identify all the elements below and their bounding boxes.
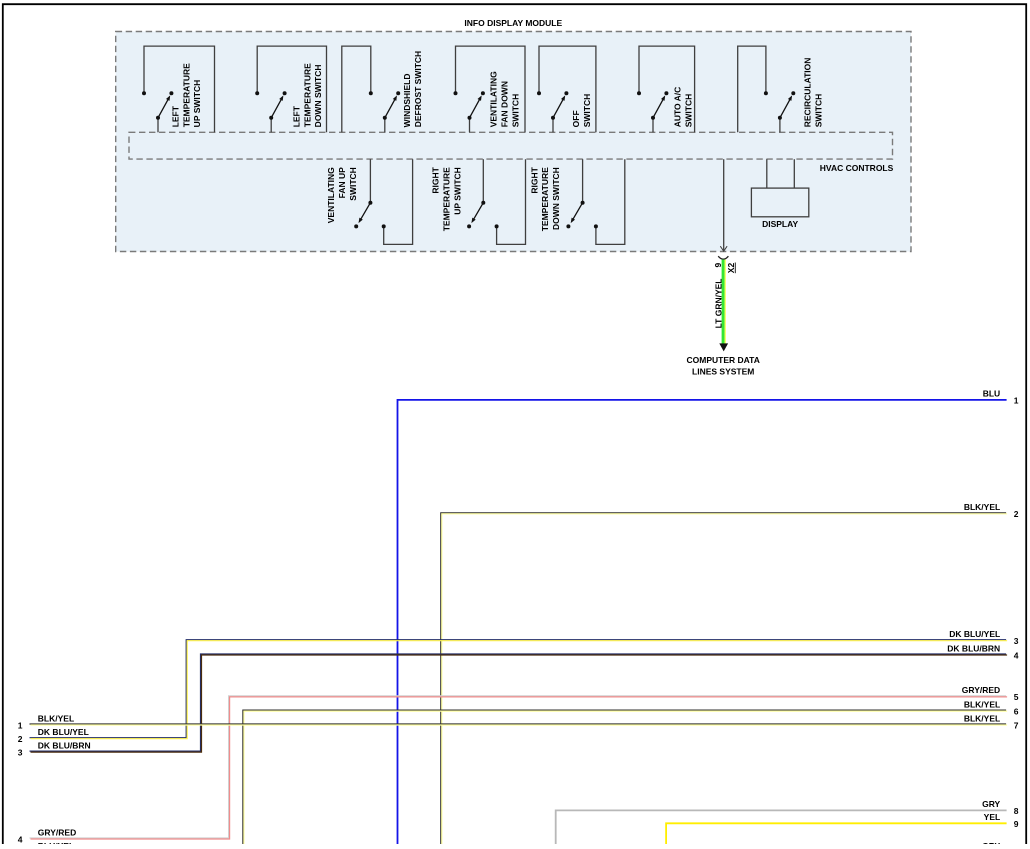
- svg-text:INFO DISPLAY MODULE: INFO DISPLAY MODULE: [464, 18, 562, 28]
- connector designator X2 (underlined): [726, 263, 736, 274]
- svg-text:9: 9: [713, 263, 723, 268]
- wire W1 BLU: [398, 400, 1007, 845]
- svg-text:LT GRN/YEL: LT GRN/YEL: [713, 278, 723, 328]
- svg-text:GRY/RED: GRY/RED: [38, 827, 76, 837]
- display unit wires: [767, 159, 795, 188]
- switch S9 right temperature up switch: [431, 159, 526, 244]
- svg-text:TEMPERATURE: TEMPERATURE: [442, 167, 452, 231]
- svg-text:DK BLU/BRN: DK BLU/BRN: [38, 740, 91, 750]
- svg-text:SWITCH: SWITCH: [348, 167, 358, 201]
- svg-text:VENTILATING: VENTILATING: [326, 167, 336, 223]
- svg-text:9: 9: [1014, 819, 1019, 829]
- svg-text:X2: X2: [726, 263, 736, 274]
- svg-text:8: 8: [1014, 806, 1019, 816]
- arrowhead to computer data lines system: [719, 343, 728, 351]
- wire from HVAC bus down to connector X2: [720, 159, 727, 251]
- svg-text:HVAC CONTROLS: HVAC CONTROLS: [820, 163, 894, 173]
- wire W8 GRY: [556, 810, 1007, 845]
- svg-text:SWITCH: SWITCH: [582, 94, 592, 128]
- wire W6 BLK/YEL: [243, 710, 1007, 845]
- wire W9 YEL: [666, 823, 1007, 845]
- svg-text:FAN UP: FAN UP: [337, 167, 347, 199]
- svg-text:6: 6: [1014, 706, 1019, 716]
- switch S2 left temperature down switch: [255, 46, 326, 132]
- svg-text:4: 4: [1014, 650, 1019, 660]
- svg-text:AUTO A/C: AUTO A/C: [673, 87, 683, 128]
- svg-text:FAN DOWN: FAN DOWN: [500, 81, 510, 127]
- svg-text:YEL: YEL: [984, 812, 1001, 822]
- svg-text:OFF: OFF: [571, 110, 581, 127]
- wire W3 DK BLU/YEL: [30, 640, 1008, 739]
- svg-text:BLK/YEL: BLK/YEL: [964, 699, 1000, 709]
- svg-text:LINES SYSTEM: LINES SYSTEM: [692, 366, 754, 376]
- wire W7 BLK/YEL: [30, 724, 1008, 725]
- svg-text:GRY: GRY: [982, 799, 1000, 809]
- svg-text:TEMPERATURE: TEMPERATURE: [302, 63, 312, 127]
- svg-text:VENTILATING: VENTILATING: [489, 71, 499, 127]
- svg-text:TEMPERATURE: TEMPERATURE: [540, 167, 550, 231]
- svg-text:DOWN SWITCH: DOWN SWITCH: [551, 167, 561, 230]
- svg-text:BLK/YEL: BLK/YEL: [964, 713, 1000, 723]
- svg-text:DEFROST SWITCH: DEFROST SWITCH: [413, 51, 423, 128]
- switch S6 auto a/c switch: [637, 46, 695, 132]
- svg-text:BLK/YEL: BLK/YEL: [964, 502, 1000, 512]
- module INFO DISPLAY MODULE dashed box: [116, 32, 911, 252]
- svg-text:DK BLU/YEL: DK BLU/YEL: [949, 629, 1000, 639]
- svg-text:RIGHT: RIGHT: [529, 166, 539, 193]
- svg-text:WINDSHIELD: WINDSHIELD: [402, 73, 412, 127]
- svg-text:UP SWITCH: UP SWITCH: [192, 80, 202, 128]
- switch S7 recirculation switch: [738, 46, 824, 132]
- svg-text:GRY/RED: GRY/RED: [962, 685, 1000, 695]
- svg-text:TEMPERATURE: TEMPERATURE: [181, 63, 191, 127]
- svg-text:BLU: BLU: [983, 389, 1000, 399]
- svg-text:DK BLU/YEL: DK BLU/YEL: [38, 727, 89, 737]
- svg-text:LEFT: LEFT: [291, 105, 301, 127]
- svg-text:BLK/YEL: BLK/YEL: [38, 713, 74, 723]
- node COMPUTER DATA LINES SYSTEM: [687, 355, 760, 376]
- switch S5 off switch: [537, 46, 596, 132]
- svg-text:SWITCH: SWITCH: [813, 94, 823, 128]
- switch S8 ventilating fan up switch: [326, 159, 412, 244]
- svg-text:UP SWITCH: UP SWITCH: [452, 167, 462, 215]
- svg-text:4: 4: [18, 834, 23, 844]
- svg-text:RIGHT: RIGHT: [431, 166, 441, 193]
- switch S1 left temperature up switch: [142, 46, 215, 132]
- wire W5 GRY/RED: [30, 696, 1008, 839]
- svg-text:SWITCH: SWITCH: [510, 94, 520, 128]
- svg-text:RECIRCULATION: RECIRCULATION: [802, 58, 812, 128]
- svg-text:3: 3: [18, 747, 23, 757]
- svg-text:1: 1: [1014, 396, 1019, 406]
- svg-text:SWITCH: SWITCH: [684, 94, 694, 128]
- svg-text:2: 2: [18, 734, 23, 744]
- display unit box: [751, 188, 808, 217]
- svg-text:LEFT: LEFT: [170, 105, 180, 127]
- svg-text:7: 7: [1014, 720, 1019, 730]
- svg-text:DOWN SWITCH: DOWN SWITCH: [313, 65, 323, 128]
- svg-text:DK BLU/BRN: DK BLU/BRN: [947, 643, 1000, 653]
- wire W4 DK BLU/BRN: [30, 654, 1008, 752]
- switch S3 windshield defrost switch: [342, 46, 423, 132]
- svg-text:3: 3: [1014, 636, 1019, 646]
- svg-text:5: 5: [1014, 692, 1019, 702]
- switch S4 ventilating fan down switch: [454, 46, 526, 132]
- svg-text:DISPLAY: DISPLAY: [762, 219, 798, 229]
- switch S10 right temperature down switch: [529, 159, 625, 244]
- wire W2 BLK/YEL: [441, 513, 1007, 846]
- svg-text:2: 2: [1014, 509, 1019, 519]
- svg-text:COMPUTER DATA: COMPUTER DATA: [687, 355, 760, 365]
- bus HVAC CONTROLS dashed box: [129, 132, 893, 159]
- wire LT GRN/YEL from X2 to computer data lines system: [722, 260, 726, 344]
- svg-text:1: 1: [18, 720, 23, 730]
- connector X2 socket arc: [718, 256, 728, 259]
